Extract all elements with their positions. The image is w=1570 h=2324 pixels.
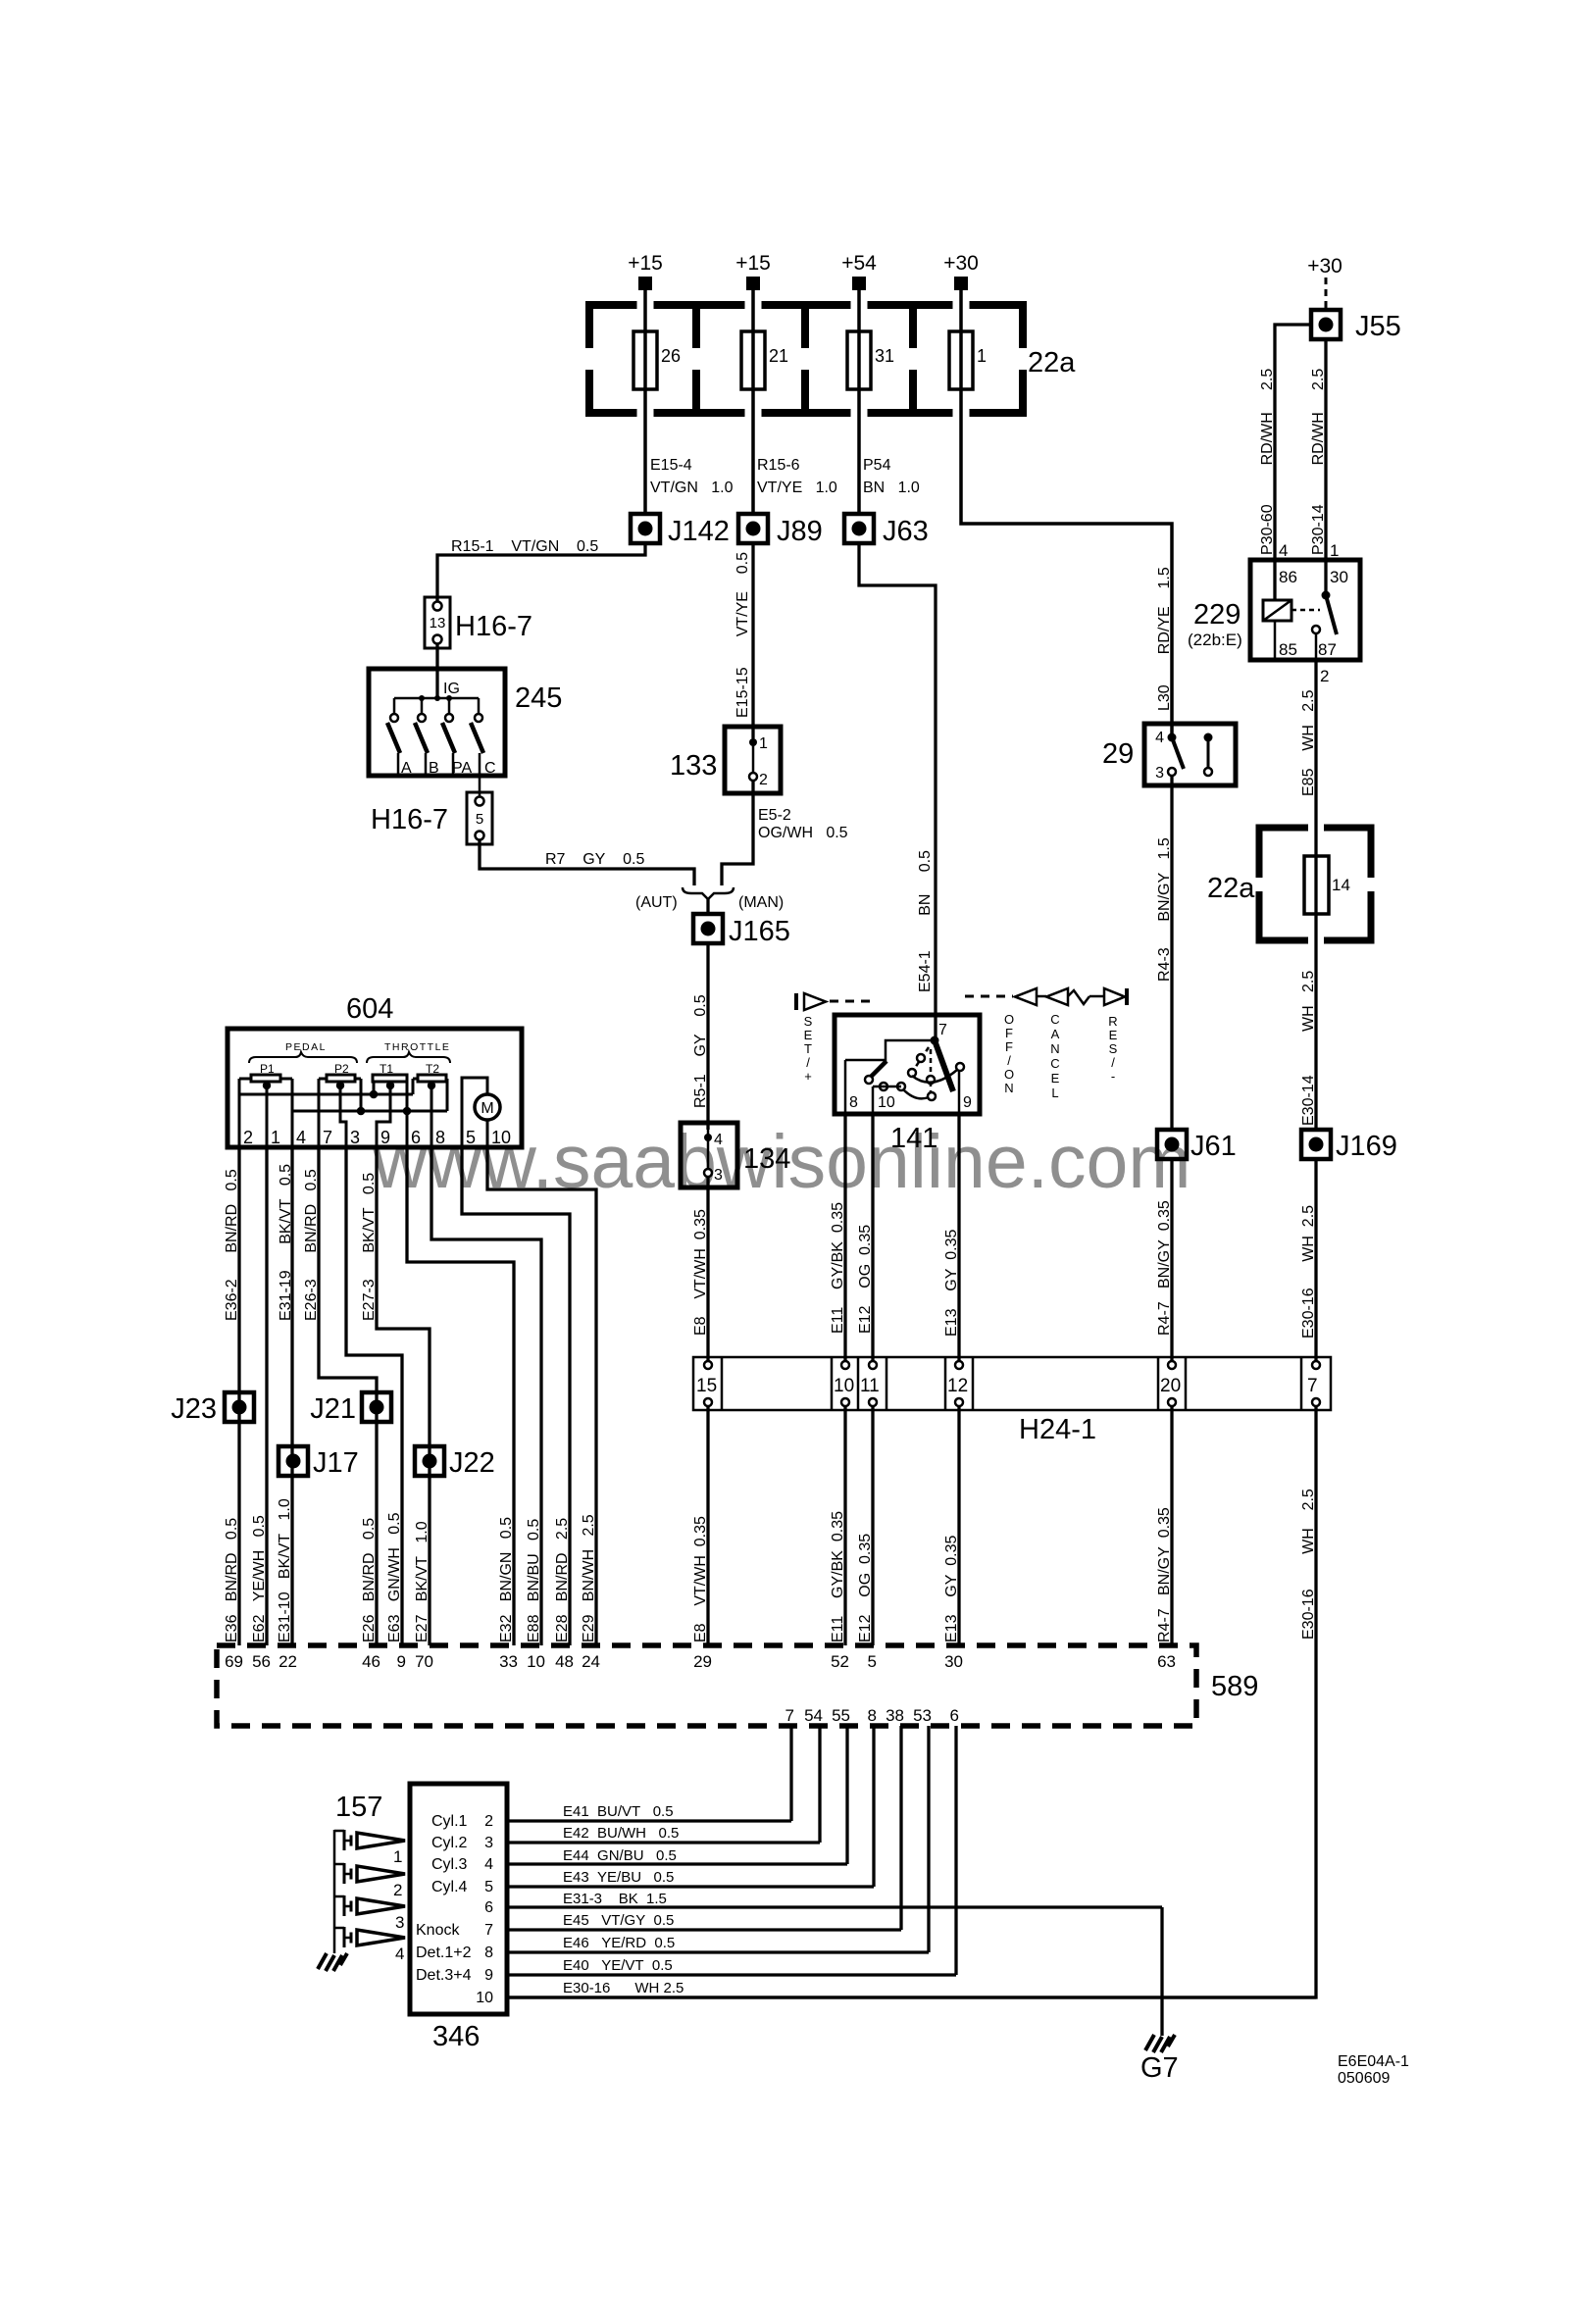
svg-text:4: 4 xyxy=(1155,730,1164,746)
svg-text:J22: J22 xyxy=(449,1447,495,1479)
svg-text:-: - xyxy=(1111,1069,1115,1084)
svg-text:PEDAL: PEDAL xyxy=(285,1041,327,1053)
svg-text:9: 9 xyxy=(397,1652,406,1671)
svg-text:12: 12 xyxy=(947,1376,968,1396)
svg-text:5: 5 xyxy=(466,1128,476,1147)
svg-text:S: S xyxy=(804,1014,813,1029)
svg-text:3: 3 xyxy=(714,1167,723,1184)
svg-text:22a: 22a xyxy=(1028,347,1076,379)
svg-text:229: 229 xyxy=(1193,599,1241,631)
svg-text:63: 63 xyxy=(1157,1652,1176,1671)
svg-text:J89: J89 xyxy=(777,516,823,547)
svg-text:10: 10 xyxy=(834,1376,854,1396)
svg-text:Cyl.3: Cyl.3 xyxy=(431,1856,468,1873)
svg-text:133: 133 xyxy=(670,750,717,782)
svg-text:Knock: Knock xyxy=(416,1922,460,1939)
svg-text:1: 1 xyxy=(271,1128,280,1147)
svg-text:7: 7 xyxy=(323,1128,332,1147)
svg-text:+15: +15 xyxy=(735,252,771,275)
svg-text:G7: G7 xyxy=(1140,2052,1179,2084)
svg-text:46: 46 xyxy=(362,1652,380,1671)
svg-text:E30-16 WH 2.5: E30-16 WH 2.5 xyxy=(563,1980,684,1996)
svg-text:E27-3 BK/VT 0.5: E27-3 BK/VT 0.5 xyxy=(361,1173,378,1321)
svg-text:E54-1 BN 0.5: E54-1 BN 0.5 xyxy=(917,850,934,992)
svg-text:31: 31 xyxy=(875,346,894,366)
svg-text:R: R xyxy=(1108,1014,1117,1029)
svg-text:E28 BN/RD 2.5: E28 BN/RD 2.5 xyxy=(554,1518,571,1642)
svg-text:E30-16 WH 2.5: E30-16 WH 2.5 xyxy=(1300,1205,1317,1339)
svg-text:A: A xyxy=(401,760,412,777)
svg-text:P30-14 RD/WH 2.5: P30-14 RD/WH 2.5 xyxy=(1310,369,1327,555)
svg-text:E26-3 BN/RD 0.5: E26-3 BN/RD 0.5 xyxy=(303,1169,320,1321)
svg-text:R7 GY 0.5: R7 GY 0.5 xyxy=(545,851,644,868)
svg-text:6: 6 xyxy=(484,1899,493,1916)
svg-text:T: T xyxy=(804,1041,812,1056)
svg-text:4: 4 xyxy=(296,1128,306,1147)
svg-text:M: M xyxy=(481,1100,493,1117)
svg-text:30: 30 xyxy=(1330,568,1348,586)
svg-text:A: A xyxy=(1051,1027,1060,1041)
svg-text:Cyl.2: Cyl.2 xyxy=(431,1835,468,1851)
svg-text:33: 33 xyxy=(499,1652,518,1671)
svg-text:E36-2 BN/RD 0.5: E36-2 BN/RD 0.5 xyxy=(224,1169,240,1321)
svg-text:N: N xyxy=(1004,1081,1013,1095)
svg-text:J17: J17 xyxy=(313,1447,359,1479)
svg-text:4: 4 xyxy=(714,1132,723,1148)
svg-text:E42 BU/WH 0.5: E42 BU/WH 0.5 xyxy=(563,1825,679,1842)
svg-text:9: 9 xyxy=(963,1094,972,1111)
svg-text:E45 VT/GY 0.5: E45 VT/GY 0.5 xyxy=(563,1912,674,1929)
svg-text:9: 9 xyxy=(484,1967,493,1984)
svg-text:H16-7: H16-7 xyxy=(371,804,448,835)
svg-text:21: 21 xyxy=(769,346,788,366)
svg-text:F: F xyxy=(1005,1039,1013,1054)
svg-text:P30-60 RD/WH 2.5: P30-60 RD/WH 2.5 xyxy=(1259,369,1276,555)
svg-text:E30-14: E30-14 xyxy=(1300,1075,1317,1126)
svg-text:Cyl.1: Cyl.1 xyxy=(431,1813,468,1830)
svg-text:6: 6 xyxy=(411,1128,421,1147)
svg-text:E31-19 BK/VT 0.5: E31-19 BK/VT 0.5 xyxy=(278,1164,294,1321)
svg-text:J23: J23 xyxy=(171,1393,217,1425)
svg-text:C: C xyxy=(1050,1012,1059,1027)
svg-text:8: 8 xyxy=(868,1706,877,1725)
svg-text:+30: +30 xyxy=(943,252,979,275)
svg-text:70: 70 xyxy=(415,1652,433,1671)
svg-text:134: 134 xyxy=(743,1143,790,1175)
svg-text:R4-7 BN/GY 0.35: R4-7 BN/GY 0.35 xyxy=(1156,1200,1173,1336)
svg-text:E15-4: E15-4 xyxy=(650,457,692,474)
svg-text:10: 10 xyxy=(527,1652,545,1671)
svg-text:30: 30 xyxy=(944,1652,963,1671)
svg-text:3: 3 xyxy=(350,1128,360,1147)
svg-text:3: 3 xyxy=(395,1913,404,1932)
svg-text:5: 5 xyxy=(868,1652,877,1671)
svg-text:48: 48 xyxy=(555,1652,574,1671)
svg-text:R15-6: R15-6 xyxy=(757,457,800,474)
svg-text:53: 53 xyxy=(913,1706,932,1725)
svg-text:Cyl.4: Cyl.4 xyxy=(431,1879,468,1895)
svg-text:J55: J55 xyxy=(1355,311,1401,342)
svg-text:J63: J63 xyxy=(883,516,929,547)
svg-text:604: 604 xyxy=(346,993,393,1025)
svg-text:J142: J142 xyxy=(668,516,730,547)
svg-text:E41 BU/VT 0.5: E41 BU/VT 0.5 xyxy=(563,1803,674,1820)
svg-text:4: 4 xyxy=(1279,541,1288,560)
svg-text:E31-10 BK/VT 1.0: E31-10 BK/VT 1.0 xyxy=(277,1498,293,1642)
svg-text:1: 1 xyxy=(759,735,768,752)
svg-text:/: / xyxy=(1007,1053,1011,1068)
svg-text:H16-7: H16-7 xyxy=(455,611,532,642)
svg-text:Det.1+2: Det.1+2 xyxy=(416,1945,472,1961)
svg-text:29: 29 xyxy=(693,1652,712,1671)
svg-text:S: S xyxy=(1109,1041,1118,1056)
svg-text:C: C xyxy=(1050,1056,1059,1071)
svg-text:69: 69 xyxy=(225,1652,243,1671)
svg-text:8: 8 xyxy=(435,1128,445,1147)
svg-text:E85 WH 2.5: E85 WH 2.5 xyxy=(1300,689,1317,796)
svg-text:E63 GN/WH 0.5: E63 GN/WH 0.5 xyxy=(386,1512,403,1642)
svg-text:10: 10 xyxy=(491,1128,511,1147)
svg-text:E12 OG 0.35: E12 OG 0.35 xyxy=(857,1225,874,1334)
svg-text:7: 7 xyxy=(785,1706,794,1725)
svg-text:22a: 22a xyxy=(1207,873,1255,904)
svg-text:E11 GY/BK 0.35: E11 GY/BK 0.35 xyxy=(830,1202,846,1334)
svg-text:E8 VT/WH 0.35: E8 VT/WH 0.35 xyxy=(692,1209,709,1336)
svg-text:E15-15 VT/YE 0.5: E15-15 VT/YE 0.5 xyxy=(734,552,751,718)
svg-text:15: 15 xyxy=(696,1376,717,1396)
svg-text:(MAN): (MAN) xyxy=(738,894,784,911)
svg-text:+15: +15 xyxy=(628,252,663,275)
svg-text:5: 5 xyxy=(476,811,483,828)
svg-text:7: 7 xyxy=(938,1022,947,1038)
svg-text:346: 346 xyxy=(432,2021,480,2052)
svg-text:(22b:E): (22b:E) xyxy=(1188,631,1242,649)
svg-text:2: 2 xyxy=(243,1128,253,1147)
svg-text:1: 1 xyxy=(1330,541,1339,560)
svg-text:5: 5 xyxy=(484,1879,493,1895)
svg-text:2: 2 xyxy=(1320,667,1329,685)
svg-text:O: O xyxy=(1004,1067,1014,1082)
svg-text:54: 54 xyxy=(804,1706,823,1725)
svg-text:E5-2: E5-2 xyxy=(758,807,791,824)
svg-text:E13 GY 0.35: E13 GY 0.35 xyxy=(943,1230,960,1338)
svg-text:R4-3 BN/GY 1.5: R4-3 BN/GY 1.5 xyxy=(1156,837,1173,982)
svg-text:E31-3 BK 1.5: E31-3 BK 1.5 xyxy=(563,1891,667,1907)
svg-text:E88 BN/BU 0.5: E88 BN/BU 0.5 xyxy=(526,1519,542,1642)
svg-text:R5-1 GY 0.5: R5-1 GY 0.5 xyxy=(692,994,709,1108)
svg-text:Det.3+4: Det.3+4 xyxy=(416,1967,472,1984)
svg-text:OG/WH 0.5: OG/WH 0.5 xyxy=(758,825,848,841)
svg-text:589: 589 xyxy=(1211,1671,1258,1702)
svg-text:J61: J61 xyxy=(1190,1131,1237,1162)
svg-text:VT/YE 1.0: VT/YE 1.0 xyxy=(757,480,837,496)
svg-text:E46 YE/RD 0.5: E46 YE/RD 0.5 xyxy=(563,1935,675,1951)
svg-text:4: 4 xyxy=(484,1856,493,1873)
svg-text:E26 BN/RD 0.5: E26 BN/RD 0.5 xyxy=(361,1518,378,1642)
svg-text:8: 8 xyxy=(849,1094,858,1111)
svg-text:22: 22 xyxy=(279,1652,297,1671)
svg-text:10: 10 xyxy=(476,1990,493,2006)
svg-text:245: 245 xyxy=(515,682,562,714)
svg-text:10: 10 xyxy=(878,1094,895,1111)
svg-text:9: 9 xyxy=(380,1128,390,1147)
svg-text:J169: J169 xyxy=(1336,1131,1397,1162)
svg-text:85: 85 xyxy=(1279,640,1297,659)
svg-text:29: 29 xyxy=(1102,738,1134,770)
svg-text:E27 BK/VT 1.0: E27 BK/VT 1.0 xyxy=(414,1521,430,1642)
svg-text:(AUT): (AUT) xyxy=(635,894,678,911)
svg-text:+: + xyxy=(804,1069,812,1084)
svg-text:IG: IG xyxy=(443,681,460,697)
svg-text:8: 8 xyxy=(484,1945,493,1961)
svg-text:3: 3 xyxy=(484,1835,493,1851)
svg-text:2: 2 xyxy=(759,772,768,788)
svg-text:E29 BN/WH 2.5: E29 BN/WH 2.5 xyxy=(581,1514,597,1642)
svg-text:PA: PA xyxy=(452,760,472,777)
svg-text:BN 1.0: BN 1.0 xyxy=(863,480,920,496)
svg-text:2: 2 xyxy=(393,1881,402,1899)
svg-text:J21: J21 xyxy=(310,1393,356,1425)
svg-text:E40 YE/VT 0.5: E40 YE/VT 0.5 xyxy=(563,1957,673,1974)
svg-text:+54: +54 xyxy=(841,252,877,275)
svg-text:13: 13 xyxy=(430,615,446,632)
svg-text:F: F xyxy=(1005,1026,1013,1040)
svg-text:E6E04A-1: E6E04A-1 xyxy=(1338,2053,1409,2070)
svg-text:7: 7 xyxy=(484,1922,493,1939)
svg-text:E36 BN/RD 0.5: E36 BN/RD 0.5 xyxy=(224,1518,240,1642)
svg-text:050609: 050609 xyxy=(1338,2070,1390,2087)
svg-text:/: / xyxy=(1111,1055,1115,1070)
svg-text:+30: +30 xyxy=(1307,255,1342,278)
svg-text:E: E xyxy=(1109,1028,1118,1042)
svg-text:1: 1 xyxy=(977,346,987,366)
svg-text:VT/GN 1.0: VT/GN 1.0 xyxy=(650,480,734,496)
svg-text:11: 11 xyxy=(860,1376,880,1396)
svg-text:26: 26 xyxy=(661,346,681,366)
svg-text:6: 6 xyxy=(950,1706,959,1725)
svg-text:38: 38 xyxy=(886,1706,904,1725)
svg-text:87: 87 xyxy=(1318,640,1337,659)
svg-text:56: 56 xyxy=(252,1652,271,1671)
svg-text:L30 RD/YE 1.5: L30 RD/YE 1.5 xyxy=(1156,567,1173,711)
svg-text:L: L xyxy=(1051,1086,1058,1100)
svg-text:O: O xyxy=(1004,1012,1014,1027)
svg-text:WH 2.5: WH 2.5 xyxy=(1300,971,1317,1032)
svg-text:H24-1: H24-1 xyxy=(1019,1414,1096,1445)
svg-text:E44 GN/BU 0.5: E44 GN/BU 0.5 xyxy=(563,1847,677,1864)
svg-text:14: 14 xyxy=(1332,876,1350,894)
svg-text:86: 86 xyxy=(1279,568,1297,586)
svg-text:P54: P54 xyxy=(863,457,891,474)
svg-text:4: 4 xyxy=(395,1945,404,1963)
svg-text:52: 52 xyxy=(831,1652,849,1671)
svg-text:24: 24 xyxy=(582,1652,600,1671)
svg-text:20: 20 xyxy=(1160,1376,1181,1396)
svg-text:B: B xyxy=(429,760,439,777)
svg-text:R15-1 VT/GN 0.5: R15-1 VT/GN 0.5 xyxy=(451,538,598,555)
svg-text:E32 BN/GN 0.5: E32 BN/GN 0.5 xyxy=(498,1517,515,1642)
svg-text:J165: J165 xyxy=(729,916,790,947)
svg-text:E: E xyxy=(1051,1071,1060,1086)
svg-text:7: 7 xyxy=(1307,1376,1318,1396)
svg-text:2: 2 xyxy=(484,1813,493,1830)
svg-text:E43 YE/BU 0.5: E43 YE/BU 0.5 xyxy=(563,1869,674,1886)
svg-text:1: 1 xyxy=(393,1847,402,1866)
svg-text:N: N xyxy=(1050,1041,1059,1056)
svg-text:THROTTLE: THROTTLE xyxy=(384,1041,450,1053)
svg-text:E: E xyxy=(804,1028,813,1042)
svg-text:E62 YE/WH 0.5: E62 YE/WH 0.5 xyxy=(251,1515,268,1642)
svg-text:C: C xyxy=(484,760,496,777)
svg-text:55: 55 xyxy=(832,1706,850,1725)
svg-text:141: 141 xyxy=(890,1123,937,1154)
svg-text:157: 157 xyxy=(335,1792,382,1823)
svg-text:/: / xyxy=(806,1055,810,1070)
svg-text:3: 3 xyxy=(1155,765,1164,782)
